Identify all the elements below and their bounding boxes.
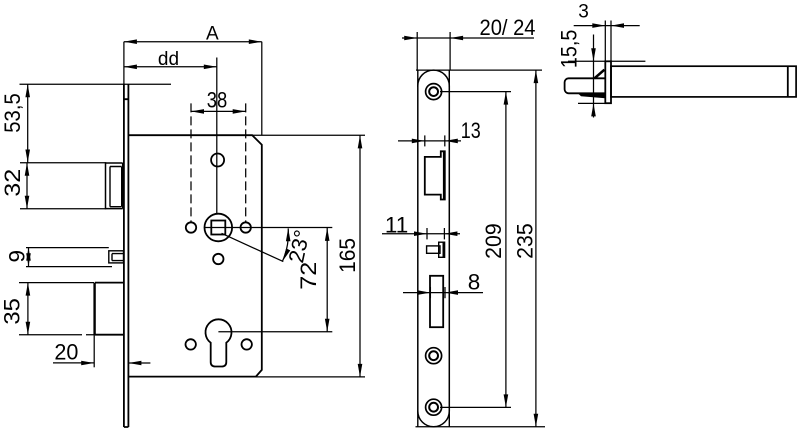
svg-text:235: 235	[513, 223, 538, 259]
svg-text:dd: dd	[158, 49, 179, 70]
svg-text:20/ 24: 20/ 24	[480, 15, 536, 40]
svg-text:13: 13	[461, 118, 481, 143]
svg-text:15,5: 15,5	[556, 30, 581, 69]
svg-text:20: 20	[54, 339, 78, 364]
svg-text:8: 8	[468, 269, 481, 294]
svg-text:35: 35	[0, 298, 24, 325]
svg-text:53,5: 53,5	[0, 93, 25, 133]
svg-text:32: 32	[0, 169, 25, 197]
svg-text:72: 72	[296, 262, 321, 290]
svg-text:11: 11	[385, 213, 408, 238]
svg-text:A: A	[206, 24, 219, 45]
svg-text:209: 209	[481, 223, 506, 259]
svg-text:3: 3	[578, 1, 589, 22]
svg-text:38: 38	[207, 87, 228, 112]
svg-text:9: 9	[5, 250, 30, 263]
svg-text:165: 165	[335, 238, 360, 273]
